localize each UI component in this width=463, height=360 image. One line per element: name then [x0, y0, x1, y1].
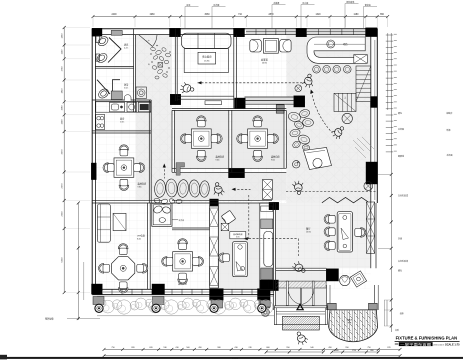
sheet corner mark: [0, 355, 7, 360]
ktv sill bench: [205, 101, 222, 105]
tea x box: [221, 223, 228, 230]
cabinet gray 2: [261, 268, 273, 280]
person bar: [302, 73, 315, 88]
outer wall right: [376, 29, 378, 203]
ktv bed/seat: [184, 49, 228, 73]
wall lounge bottom win: [245, 96, 294, 98]
zigzag screen: [322, 197, 368, 202]
floor tint entry column: [136, 35, 173, 200]
entry triangle: [296, 303, 304, 310]
lounge armchair R: [280, 40, 292, 52]
planter edge lines: [97, 295, 274, 297]
column center-big: [229, 168, 245, 178]
washing machine: [136, 87, 146, 99]
svg-text:1750: 1750: [352, 350, 356, 352]
right ruler line A: [387, 33, 389, 110]
cabinet bench rounded: [264, 232, 273, 267]
floor tint dining1: [174, 110, 228, 168]
vip octagon table: [112, 257, 135, 280]
wall left-rooms right: [148, 100, 150, 203]
svg-text:8.4m: 8.4m: [137, 238, 141, 240]
svg-text:1450: 1450: [62, 33, 64, 39]
left small gray cabinet: [261, 300, 271, 307]
column top-5: [366, 28, 378, 37]
person ktv: [180, 82, 195, 95]
column right-big: [366, 162, 378, 184]
svg-text:5330: 5330: [62, 257, 64, 263]
column mid-3: [294, 96, 305, 107]
svg-text:1390: 1390: [62, 119, 64, 125]
vip sofa: [97, 204, 110, 242]
kitchen appliance box: [127, 102, 137, 112]
bar sink: [327, 40, 335, 48]
left dim line: [63, 28, 65, 294]
mid wc basin 2: [162, 206, 171, 214]
column porch: [326, 269, 338, 281]
bottom dim line: [104, 348, 400, 350]
wc2 diagonal wall: [97, 80, 110, 94]
column bottom-4: [258, 289, 271, 301]
floor tint corridor: [151, 172, 286, 200]
x-screen strip: [210, 206, 219, 288]
kitchen sink box: [110, 102, 125, 112]
porch frame right: [374, 285, 376, 310]
right circle column: [364, 182, 373, 191]
wall dining-room bottom: [276, 267, 327, 269]
mid wc leader: [172, 219, 178, 221]
dining table room-2: [191, 129, 211, 148]
svg-text:26.9m: 26.9m: [262, 63, 268, 65]
svg-text:1150: 1150: [62, 49, 64, 54]
column top-4: [296, 28, 307, 37]
dining right cabinet X: [366, 202, 374, 253]
floor drain circle: [295, 85, 302, 92]
mid wc outer: [152, 203, 172, 226]
svg-text:800: 800: [335, 350, 338, 352]
column pedestal gray 3: [93, 297, 104, 305]
cabinet gray 1: [261, 219, 273, 229]
wall wc2 bottom: [92, 99, 151, 101]
svg-text:1960: 1960: [149, 14, 155, 16]
svg-text:一层平面布置图: 一层平面布置图: [400, 341, 431, 346]
dashed route corridor-up: [163, 166, 165, 179]
right ruler line B: [390, 33, 392, 332]
entry mat hatch: [283, 316, 320, 330]
column top-2: [170, 28, 181, 37]
bar shaft X: [354, 55, 368, 64]
entry door arcs: [288, 288, 314, 304]
svg-text:1810: 1810: [62, 88, 64, 94]
column bottom-5: [269, 202, 279, 210]
column pedestal gray 4: [153, 297, 165, 305]
wall dining2 right: [283, 110, 285, 168]
entry side walls: [274, 305, 327, 307]
dashed route open long: [286, 191, 376, 193]
top dim line: [93, 16, 388, 18]
column mid-2: [235, 98, 246, 109]
column pedestal gray 1: [211, 300, 223, 308]
wall tearoom left outer: [217, 203, 219, 288]
x-panel corridor: [263, 180, 273, 200]
wall ktv bottom: [177, 95, 234, 97]
vip chairs: [118, 244, 128, 255]
dashed route bar curve: [312, 92, 333, 134]
porch frame left: [325, 285, 327, 310]
bollard at 156.0: [152, 304, 160, 312]
bollard at 261.8: [258, 304, 266, 312]
svg-text:9.8m: 9.8m: [138, 186, 142, 188]
title black box: [399, 342, 433, 346]
svg-text:3.6m: 3.6m: [124, 87, 129, 89]
column top-3: [234, 28, 245, 37]
svg-text:4.2m: 4.2m: [124, 47, 129, 49]
svg-text:3.7m: 3.7m: [236, 237, 240, 239]
svg-text:多功能房: 多功能房: [202, 55, 212, 59]
wc2 vanity gray: [111, 91, 122, 100]
svg-text:(BSC0047): (BSC0047): [433, 344, 444, 346]
flower pot left: [261, 308, 269, 316]
entry stones: [150, 47, 156, 52]
right dim small marks: [384, 299, 391, 301]
svg-text:石: 石: [148, 63, 150, 66]
svg-text:SCALE 1:75: SCALE 1:75: [445, 342, 460, 346]
svg-text:1320: 1320: [315, 14, 321, 16]
bar stools: [313, 66, 321, 74]
tea tilted chair: [221, 210, 236, 225]
wall vip right: [147, 203, 149, 289]
svg-text:13.9m: 13.9m: [306, 232, 311, 234]
column mid-1: [170, 94, 181, 105]
column bottom-3: [210, 289, 224, 301]
basin circle open area: [293, 161, 300, 168]
title dash: [395, 343, 398, 345]
mid wc toilet: [159, 218, 165, 223]
center stones: [287, 111, 301, 123]
bottom total dim: [104, 355, 400, 357]
outer wall top: [92, 28, 377, 30]
wall dining top: [172, 108, 286, 110]
dining plant circle: [340, 275, 350, 285]
wall kitchen bottom: [92, 130, 151, 132]
tea long table: [233, 242, 248, 277]
mid wc basin 1: [153, 205, 164, 215]
entry threshold hatch band: [276, 281, 326, 288]
dining chair right: [355, 228, 366, 238]
svg-text:1080: 1080: [62, 105, 64, 111]
floor tint entry hall: [276, 270, 327, 306]
wall dining-room left: [272, 203, 274, 310]
sheet bottom border: [0, 357, 463, 359]
right porch vertical dim: [386, 300, 388, 326]
wall dining mid: [228, 110, 230, 172]
floor tint dining2: [232, 110, 284, 168]
column mid-4: [371, 97, 378, 108]
kitchen counter band: [96, 102, 151, 112]
stair column circle: [342, 113, 352, 123]
svg-text:2330: 2330: [62, 211, 64, 217]
lounge armchair L: [250, 40, 262, 52]
ktv sofa back: [182, 33, 232, 48]
svg-text:9.6m: 9.6m: [216, 159, 220, 161]
porch gray block L: [328, 303, 337, 310]
toilet 1: [96, 36, 100, 43]
svg-text:3060: 3060: [204, 14, 210, 16]
bollard at 99.0: [95, 304, 103, 312]
person corridor: [211, 181, 225, 197]
dashed route corridor-left: [234, 188, 251, 190]
svg-text:2400: 2400: [111, 14, 117, 16]
entry door swing: [139, 35, 158, 47]
right sparse ticks: [390, 173, 393, 176]
wc2 alcove: [124, 95, 131, 101]
porch bottom dims: [332, 351, 378, 353]
floor tint dining hall: [276, 203, 371, 268]
wall wc divider: [95, 65, 133, 67]
floor tint tearoom: [218, 203, 259, 289]
vip coffee table: [113, 213, 126, 230]
svg-text:880: 880: [370, 350, 373, 352]
cabinet box 1: [261, 206, 273, 212]
svg-text:1760: 1760: [62, 66, 64, 72]
dining table room-3: [248, 129, 268, 148]
svg-text:3370: 3370: [62, 149, 64, 155]
outer wall left: [91, 29, 93, 293]
outer wall bottom with windows: [92, 288, 274, 290]
stair flight horizontal: [334, 93, 356, 111]
person porch: [293, 330, 309, 347]
window gray bands: [246, 29, 296, 34]
bar counter: [307, 37, 365, 63]
tea chair left: [218, 253, 229, 263]
wall ktv left: [174, 29, 176, 101]
diagonal floor grid open areas: [136, 35, 172, 200]
dining table room-1: [114, 158, 134, 177]
under-stair marks: [353, 140, 364, 151]
entry door posts: [286, 281, 288, 305]
wc counter gray: [111, 30, 122, 35]
svg-text:5.8m: 5.8m: [120, 121, 125, 123]
svg-text:会客区: 会客区: [261, 58, 269, 62]
porch gray block R: [369, 303, 378, 310]
screen black top: [210, 199, 219, 206]
dining chairs left: [324, 214, 335, 224]
entry bottom dims: [266, 351, 323, 353]
wc partition chevrons: [108, 38, 121, 63]
bollard at 214.0: [210, 304, 218, 312]
right leaders: [378, 173, 391, 175]
window top A: [246, 31, 296, 33]
column bottom-1: [92, 284, 103, 294]
column bottom-6: [269, 280, 279, 291]
person dining: [291, 260, 308, 276]
svg-text:1180: 1180: [354, 14, 360, 16]
wall dining bottom: [172, 167, 286, 169]
column top-1: [92, 28, 102, 36]
dining table room-4: [173, 252, 193, 271]
entry square with X: [158, 63, 163, 68]
wall pier gray: [276, 105, 284, 113]
svg-text:FIXTURE & FURNISHING PLAN: FIXTURE & FURNISHING PLAN: [396, 336, 458, 341]
wc2 L wall: [113, 80, 121, 95]
dashed route dining vertical: [298, 239, 300, 256]
wall wc right: [133, 29, 135, 113]
top leader callouts: [184, 7, 186, 29]
column bottom-2: [152, 284, 165, 294]
floor tint open center: [286, 35, 371, 203]
kitchen stove box dark: [138, 102, 150, 112]
entry dots: [151, 54, 152, 55]
long dining table: [337, 212, 352, 252]
dashed route ktv: [198, 82, 306, 84]
tea label box: [230, 232, 246, 239]
person stairs: [330, 123, 347, 140]
wall table-room top: [172, 227, 210, 229]
ktv label box: [198, 52, 216, 64]
kitchen range left: [96, 115, 105, 130]
wall dining1 left: [171, 110, 173, 172]
wall bottom-band top: [92, 199, 162, 201]
svg-text:2870: 2870: [268, 14, 274, 16]
dashed route tea vertical: [248, 195, 250, 239]
dashed route tea horizontal: [249, 238, 299, 240]
svg-text:9.6m: 9.6m: [271, 159, 275, 161]
wall dining-room right: [370, 203, 372, 268]
title underline: [395, 340, 460, 342]
person open: [292, 180, 305, 195]
column pedestal gray 2: [259, 300, 270, 308]
toilet 3: [97, 87, 110, 100]
corridor boulders: [154, 179, 166, 197]
svg-text:2370: 2370: [62, 183, 64, 189]
tree row: [98, 299, 106, 307]
lounge table: [264, 39, 279, 54]
wall ktv right: [233, 35, 235, 109]
toilet 2: [96, 54, 100, 61]
door black left wall: [91, 163, 96, 180]
svg-text:15.8m: 15.8m: [204, 60, 210, 62]
cabinet black: [260, 280, 269, 297]
cashier desk: [304, 148, 332, 170]
dining tilted side table: [350, 271, 366, 287]
left secondary dim: [77, 203, 79, 320]
cashier stool: [313, 158, 322, 167]
floor tile grid: [96, 35, 371, 289]
gray jamb L: [176, 163, 184, 176]
cabinet strip outer: [260, 203, 274, 290]
right dense ticks: [386, 34, 393, 36]
corridor small stones: [154, 198, 161, 204]
stair flight vertical: [356, 66, 371, 102]
